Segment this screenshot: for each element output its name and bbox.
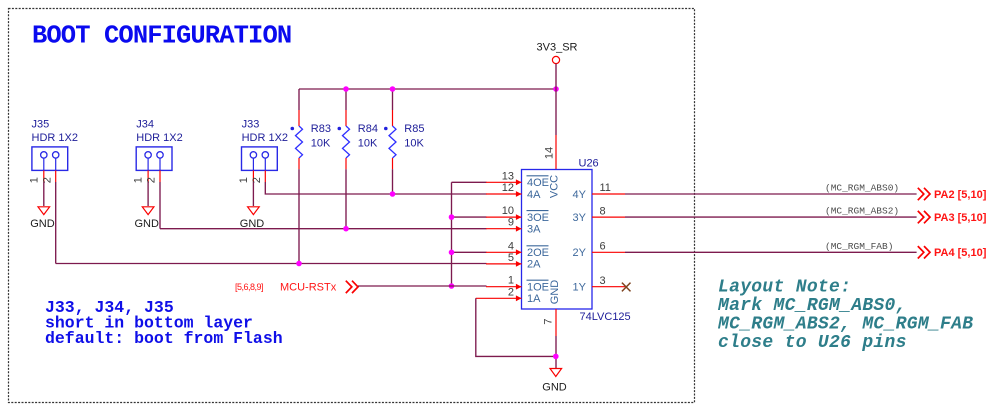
pin 12 4A <box>486 193 522 195</box>
svg-text:12: 12 <box>502 182 514 194</box>
ground symbol J35 <box>30 207 55 230</box>
svg-text:(MC_RGM_FAB): (MC_RGM_FAB) <box>825 241 893 252</box>
svg-text:R84: R84 <box>358 123 378 135</box>
port PA3 <box>918 211 987 224</box>
wire J35.2 to 2A row <box>56 263 487 265</box>
svg-text:Mark MC_RGM_ABS0,: Mark MC_RGM_ABS0, <box>717 296 907 316</box>
resistor R84 <box>338 89 379 229</box>
pin stub J35.2 <box>55 170 57 182</box>
svg-text:close to U26 pins: close to U26 pins <box>718 333 907 353</box>
svg-text:PA3 [5,10]: PA3 [5,10] <box>934 212 987 224</box>
pin 11 4Y <box>592 193 625 195</box>
wire 2Y out <box>625 251 917 253</box>
wire 1A return path <box>476 298 556 356</box>
U26 left pins <box>476 170 549 305</box>
svg-text:3Y: 3Y <box>573 212 587 224</box>
power 3V3_SR <box>537 42 578 90</box>
junction bus R84 <box>343 86 349 92</box>
ground symbol U26 <box>542 369 567 394</box>
wire 4Y out <box>625 193 917 195</box>
wire OE row 10 <box>452 216 487 218</box>
connector J34 <box>133 119 183 184</box>
pin stub J33.1 <box>252 170 254 182</box>
wire J34.2 down <box>159 182 161 229</box>
pin stub J33.2 <box>264 170 266 182</box>
svg-text:HDR 1X2: HDR 1X2 <box>242 132 288 144</box>
svg-text:14: 14 <box>544 147 556 159</box>
ground symbol J33 <box>240 207 264 230</box>
svg-text:PA4 [5,10]: PA4 [5,10] <box>934 247 987 259</box>
pin stub J35.1 <box>43 170 45 182</box>
border frame (decorative) <box>9 9 695 403</box>
svg-text:PA2 [5,10]: PA2 [5,10] <box>934 189 987 201</box>
svg-text:J34: J34 <box>136 119 154 131</box>
svg-text:R83: R83 <box>311 123 331 135</box>
svg-text:MCU-RSTx: MCU-RSTx <box>280 282 337 294</box>
wire top bus 3V3 <box>299 88 556 90</box>
svg-text:GND: GND <box>549 280 561 305</box>
svg-text:GND: GND <box>30 218 55 230</box>
svg-text:10K: 10K <box>311 137 331 149</box>
junction bus 3V3 drop <box>553 86 559 92</box>
svg-text:2A: 2A <box>527 259 541 271</box>
wire 3Y out <box>625 216 917 218</box>
pin stub J34.1 <box>147 170 149 182</box>
pin 8 3Y <box>592 216 625 218</box>
svg-text:1: 1 <box>133 177 145 183</box>
pin 6 2Y <box>592 251 625 253</box>
OE tie vertical wire <box>451 182 453 286</box>
svg-text:(MC_RGM_ABS0): (MC_RGM_ABS0) <box>825 183 899 194</box>
wire 3V3 down to U26 pin14 <box>555 89 557 135</box>
svg-text:MC_RGM_ABS2, MC_RGM_FAB: MC_RGM_ABS2, MC_RGM_FAB <box>717 315 973 335</box>
svg-text:3: 3 <box>600 275 606 287</box>
svg-text:1OE: 1OE <box>527 282 549 294</box>
wire J35.2 down <box>55 182 57 264</box>
svg-text:U26: U26 <box>579 158 599 170</box>
svg-text:10K: 10K <box>358 137 378 149</box>
wire J35.1 to gnd <box>43 182 45 206</box>
svg-text:Layout Note:: Layout Note: <box>718 278 851 298</box>
IC U26 <box>522 158 631 324</box>
svg-text:VCC: VCC <box>549 175 561 198</box>
port MCU-RSTx <box>235 281 358 294</box>
wire J33.2 to 4A row <box>265 182 486 194</box>
pin 1 1OE <box>486 286 522 288</box>
svg-text:10: 10 <box>502 205 514 217</box>
svg-text:HDR 1X2: HDR 1X2 <box>136 132 182 144</box>
port PA2 <box>918 188 987 201</box>
wire OE row 4 <box>452 251 487 253</box>
junction bus R85 <box>390 86 396 92</box>
svg-text:2OE: 2OE <box>527 247 549 259</box>
svg-text:R85: R85 <box>404 123 424 135</box>
svg-text:3A: 3A <box>527 224 541 236</box>
svg-text:2Y: 2Y <box>573 247 587 259</box>
resistor R83 <box>291 89 332 264</box>
svg-text:11: 11 <box>600 182 611 194</box>
pin 13 4OE <box>486 181 522 183</box>
junction gnd <box>553 354 559 360</box>
svg-text:4A: 4A <box>527 189 541 201</box>
svg-text:1Y: 1Y <box>573 282 587 294</box>
svg-text:6: 6 <box>600 241 606 253</box>
pin 5 2A <box>486 263 522 265</box>
pin 4 2OE <box>486 251 522 253</box>
pin 2 1A <box>476 297 522 299</box>
svg-text:13: 13 <box>502 170 514 182</box>
svg-text:4: 4 <box>508 240 514 252</box>
wire pin7 to gnd <box>555 336 557 368</box>
pin 9 3A <box>486 228 522 230</box>
svg-text:7: 7 <box>543 319 555 325</box>
junction OE row 4 <box>449 250 455 256</box>
junction R85 4A <box>390 191 396 197</box>
svg-text:1: 1 <box>28 177 40 183</box>
wire J33.1 to gnd <box>252 182 254 206</box>
svg-text:HDR 1X2: HDR 1X2 <box>32 132 78 144</box>
svg-text:1: 1 <box>508 275 514 287</box>
svg-text:(MC_RGM_ABS2): (MC_RGM_ABS2) <box>825 206 899 217</box>
svg-text:4OE: 4OE <box>527 177 549 189</box>
U26 right pins <box>573 182 625 293</box>
port PA4 <box>918 246 987 259</box>
svg-text:4Y: 4Y <box>573 189 587 201</box>
svg-text:BOOT CONFIGURATION: BOOT CONFIGURATION <box>32 22 291 51</box>
resistor R85 <box>384 89 425 194</box>
svg-text:GND: GND <box>135 218 160 230</box>
junction OE MCU-RSTx <box>449 283 455 289</box>
svg-text:[5,6,8,9]: [5,6,8,9] <box>235 282 263 292</box>
svg-text:GND: GND <box>542 382 567 394</box>
svg-text:5: 5 <box>508 252 514 264</box>
pin stub J34.2 <box>159 170 161 182</box>
svg-text:8: 8 <box>600 205 606 217</box>
svg-text:1: 1 <box>238 177 250 183</box>
svg-text:J35: J35 <box>32 119 50 131</box>
connector J33 <box>238 119 288 184</box>
wire J34.2 to 3A row <box>160 228 487 230</box>
svg-text:default: boot from Flash: default: boot from Flash <box>45 329 283 348</box>
pin 7 stub <box>555 309 557 336</box>
svg-text:1A: 1A <box>527 293 541 305</box>
svg-text:2: 2 <box>508 286 514 298</box>
wire OE row 13 <box>452 181 487 183</box>
pin 3 1Y <box>592 286 625 288</box>
svg-text:10K: 10K <box>404 137 424 149</box>
junction R84 3A <box>343 226 349 232</box>
svg-text:74LVC125: 74LVC125 <box>580 311 631 323</box>
svg-text:3V3_SR: 3V3_SR <box>537 42 578 54</box>
junction OE row 10 <box>449 214 455 220</box>
junction R83 2A <box>296 261 302 267</box>
ground symbol J34 <box>135 207 160 230</box>
pin 14 stub <box>555 135 557 170</box>
pin 10 3OE <box>486 216 522 218</box>
svg-text:3OE: 3OE <box>527 212 549 224</box>
wire J34.1 to gnd <box>147 182 149 206</box>
svg-text:J33: J33 <box>242 119 260 131</box>
connector J35 <box>28 119 78 184</box>
no connect X on pin 3 <box>622 283 631 292</box>
wire MCU-RSTx to 1OE <box>358 285 487 287</box>
svg-text:9: 9 <box>508 217 514 229</box>
